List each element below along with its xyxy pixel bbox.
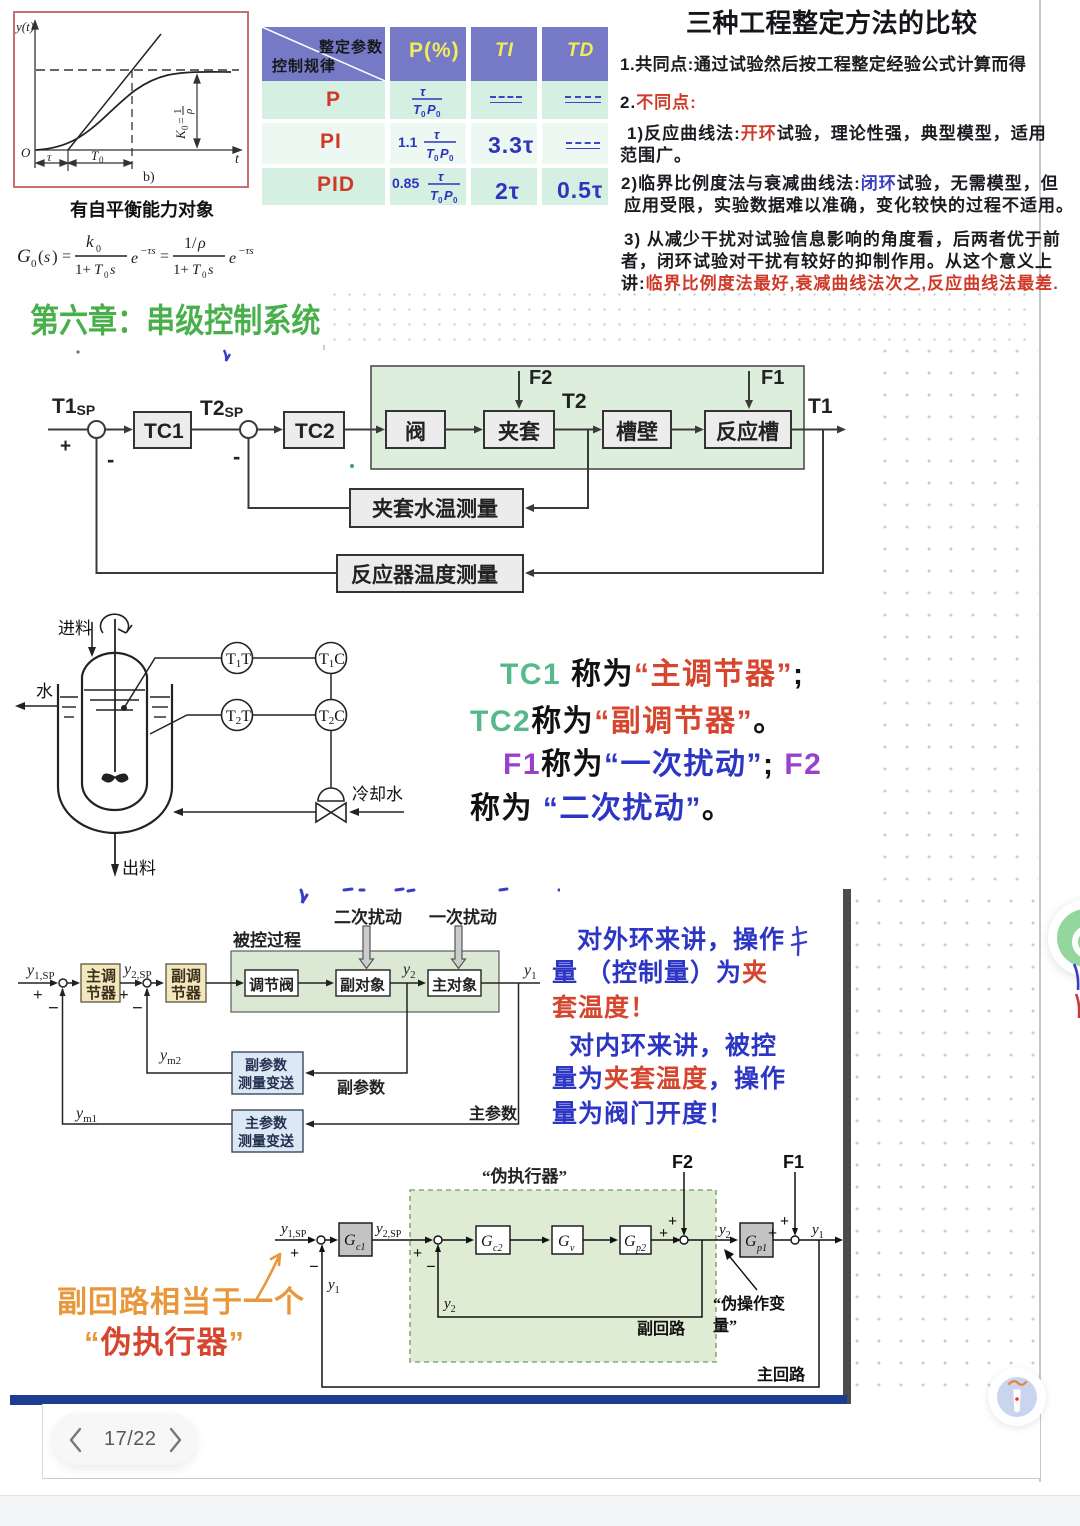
outlet arrow bbox=[114, 833, 116, 866]
svg-text:−: − bbox=[309, 1257, 319, 1276]
x axis bbox=[35, 147, 241, 153]
svg-text:1+: 1+ bbox=[75, 262, 91, 278]
svg-text:s: s bbox=[208, 263, 214, 278]
svg-text:阀: 阀 bbox=[405, 421, 426, 444]
wire wall to reactor bbox=[671, 429, 696, 431]
wire TC1 to junction 2 bbox=[191, 429, 240, 431]
wire feedback jacket temperature bbox=[527, 430, 588, 509]
svg-text:0: 0 bbox=[453, 196, 458, 205]
wire Gc2 to Gv bbox=[510, 1239, 543, 1241]
stirrer rotation symbol bbox=[101, 614, 133, 633]
liquid level marks bbox=[60, 690, 170, 717]
svg-text:y2,SP: y2,SP bbox=[374, 1221, 402, 1240]
svg-text:P: P bbox=[440, 146, 449, 161]
block reactor bbox=[705, 411, 791, 448]
instrument T2C bbox=[316, 700, 347, 731]
svg-text:0: 0 bbox=[202, 270, 207, 280]
wire valve to jacket bbox=[445, 429, 475, 431]
svg-text:T1SP: T1SP bbox=[52, 395, 95, 418]
inner vessel bbox=[82, 653, 147, 810]
svg-text:e: e bbox=[131, 250, 138, 267]
svg-text:O: O bbox=[21, 145, 31, 160]
svg-text:F1: F1 bbox=[783, 1152, 804, 1172]
svg-text:“伪执行器”: “伪执行器” bbox=[482, 1166, 567, 1186]
instrument T2T bbox=[222, 700, 253, 731]
svg-text:k: k bbox=[86, 232, 94, 251]
svg-text:P: P bbox=[444, 188, 453, 203]
svg-text:冷却水: 冷却水 bbox=[352, 785, 403, 804]
svg-text:0: 0 bbox=[31, 258, 37, 270]
svg-text:一次扰动: 一次扰动 bbox=[429, 907, 497, 927]
cut-off ink at slide edge bbox=[1072, 962, 1080, 1020]
svg-text:−τs: −τs bbox=[238, 245, 254, 257]
svg-text:P: P bbox=[427, 102, 436, 117]
stray blue ink dashes bbox=[301, 889, 686, 903]
wire secondary to primary object bbox=[390, 982, 419, 984]
svg-text:y1,SP: y1,SP bbox=[25, 962, 55, 982]
tau span arrow bbox=[36, 160, 68, 166]
block primary measurement bbox=[232, 1110, 303, 1152]
control valve body bbox=[316, 803, 346, 822]
svg-text:G: G bbox=[558, 1233, 570, 1250]
svg-text:副参数: 副参数 bbox=[337, 1078, 386, 1097]
output wire bbox=[799, 1239, 836, 1241]
block secondary measurement bbox=[232, 1052, 303, 1094]
svg-text:y2: y2 bbox=[717, 1222, 731, 1241]
caption: self-balancing object bbox=[70, 196, 214, 222]
svg-text:F2: F2 bbox=[529, 367, 552, 389]
svg-text:夹套: 夹套 bbox=[498, 420, 540, 444]
instrument T1C bbox=[316, 643, 347, 674]
block Gc2 bbox=[476, 1226, 510, 1254]
sum junction 1 bbox=[317, 1236, 325, 1244]
svg-text:主参数: 主参数 bbox=[469, 1104, 518, 1123]
svg-text:T: T bbox=[91, 148, 99, 163]
sum junction 1 bbox=[59, 979, 67, 987]
svg-text:0: 0 bbox=[434, 154, 439, 163]
wire TC2 to valve bbox=[344, 429, 377, 431]
svg-text:G: G bbox=[481, 1233, 493, 1250]
block TC2 bbox=[284, 412, 344, 448]
svg-text:y2,SP: y2,SP bbox=[122, 961, 152, 981]
svg-text:0: 0 bbox=[96, 244, 101, 255]
svg-text:+: + bbox=[119, 985, 129, 1004]
svg-text:y1,SP: y1,SP bbox=[279, 1221, 307, 1240]
block Gp2 bbox=[620, 1226, 651, 1254]
svg-text:ρ: ρ bbox=[183, 109, 195, 115]
block tank wall bbox=[603, 411, 671, 448]
tick below tangent foot bbox=[67, 150, 69, 171]
svg-text:τ: τ bbox=[47, 150, 52, 164]
svg-text:b): b) bbox=[143, 170, 155, 185]
output wire bbox=[481, 982, 540, 984]
svg-text:夹套水温测量: 夹套水温测量 bbox=[372, 497, 498, 521]
wire dot to T1T bbox=[124, 658, 221, 708]
secondary disturbance block arrow bbox=[360, 926, 374, 969]
svg-text:F1: F1 bbox=[761, 367, 784, 389]
control valve actuator bbox=[318, 788, 344, 801]
svg-text:0: 0 bbox=[180, 125, 190, 130]
svg-text:-: - bbox=[107, 447, 114, 472]
block Gc1 bbox=[339, 1223, 372, 1256]
dotted canvas band beside green chapter title bbox=[327, 287, 1038, 345]
svg-text:TC1: TC1 bbox=[144, 420, 184, 443]
sum junction 2 bbox=[434, 1236, 442, 1244]
green circular button cut at right edge bbox=[1048, 900, 1080, 976]
svg-text:量”: 量” bbox=[713, 1317, 737, 1335]
svg-text:进料: 进料 bbox=[58, 619, 92, 638]
svg-text:出料: 出料 bbox=[122, 859, 156, 878]
svg-text:T1: T1 bbox=[808, 395, 833, 418]
svg-text:c1: c1 bbox=[356, 1242, 365, 1253]
stray blue ink glyph bbox=[788, 924, 810, 962]
svg-text:ρ: ρ bbox=[197, 235, 206, 252]
figure red frame bbox=[14, 12, 248, 187]
outer feedback wire bbox=[322, 1240, 819, 1387]
svg-text:副调: 副调 bbox=[171, 968, 201, 985]
blue pen tick bbox=[224, 350, 230, 361]
row labels bbox=[326, 88, 341, 112]
svg-text:1+: 1+ bbox=[173, 262, 189, 278]
thin vertical canvas edge line bbox=[1039, 0, 1041, 1482]
svg-text:+: + bbox=[33, 985, 43, 1004]
wire T1T to T1C bbox=[253, 657, 316, 659]
block secondary object bbox=[336, 970, 390, 996]
svg-text:−: − bbox=[132, 998, 143, 1019]
svg-text:G: G bbox=[745, 1233, 757, 1250]
svg-text:=: = bbox=[174, 117, 188, 124]
svg-text:0: 0 bbox=[449, 154, 454, 163]
sum junction 2 bbox=[143, 979, 151, 987]
svg-text:−τs: −τs bbox=[140, 245, 156, 257]
wire to junction 2 bbox=[120, 982, 136, 984]
svg-text:T2SP: T2SP bbox=[200, 397, 243, 420]
svg-text:0: 0 bbox=[436, 110, 441, 119]
wire to TC1 bbox=[105, 429, 125, 431]
wire to Gc1 bbox=[325, 1239, 331, 1241]
dotted canvas right column upper bbox=[874, 340, 1038, 886]
svg-text:反应槽: 反应槽 bbox=[716, 420, 779, 444]
row PID bbox=[262, 168, 385, 205]
svg-text:+: + bbox=[413, 1245, 422, 1262]
green controlled-process region bbox=[231, 951, 499, 1012]
svg-text:主回路: 主回路 bbox=[757, 1365, 806, 1384]
svg-text:e: e bbox=[229, 250, 236, 267]
wire to secondary controller bbox=[152, 982, 158, 984]
dark slide right edge bar bbox=[843, 889, 851, 1404]
outer jacket shell bbox=[58, 684, 172, 833]
svg-text:水: 水 bbox=[36, 682, 53, 701]
svg-text:F2: F2 bbox=[672, 1152, 693, 1172]
svg-text:TC2: TC2 bbox=[295, 420, 335, 443]
row P bbox=[262, 81, 385, 119]
svg-text:y1: y1 bbox=[810, 1222, 824, 1241]
block jacket water temp measurement bbox=[350, 489, 523, 527]
wire measurement to junction 1 bbox=[97, 438, 338, 573]
wire T1C to T2C bbox=[330, 674, 332, 700]
svg-text:p1: p1 bbox=[756, 1243, 767, 1254]
bottom UI panel frame bbox=[42, 1404, 1040, 1479]
junction F2 bbox=[680, 1236, 688, 1244]
block jacket bbox=[484, 411, 554, 448]
F1 drop wire bbox=[794, 1172, 796, 1229]
inner feedback wire bbox=[438, 1240, 702, 1317]
svg-text:+: + bbox=[659, 1225, 668, 1242]
response curve bbox=[36, 72, 231, 150]
water out arrow bbox=[24, 705, 58, 707]
block primary object bbox=[428, 970, 481, 996]
svg-text:y1: y1 bbox=[522, 962, 537, 982]
wire T2C to valve bbox=[330, 731, 332, 795]
svg-text:副对象: 副对象 bbox=[340, 976, 385, 994]
svg-text:主对象: 主对象 bbox=[432, 976, 477, 994]
svg-text:+: + bbox=[768, 1225, 777, 1242]
svg-text:=: = bbox=[62, 248, 71, 265]
wire T2T to T2C bbox=[253, 714, 316, 716]
svg-text:副参数: 副参数 bbox=[245, 1057, 288, 1074]
svg-text:槽壁: 槽壁 bbox=[616, 420, 658, 444]
svg-text:+: + bbox=[780, 1213, 789, 1230]
wire to primary controller bbox=[68, 982, 74, 984]
sensor tap dot bbox=[121, 705, 127, 711]
dashes cells bbox=[490, 96, 522, 103]
transfer function formula bbox=[12, 225, 262, 285]
K0 vertical arrow bbox=[194, 75, 200, 147]
svg-text:1/: 1/ bbox=[184, 235, 197, 252]
svg-text:节器: 节器 bbox=[86, 984, 117, 1002]
navy bottom bar of slide bbox=[10, 1395, 847, 1405]
svg-text:-: - bbox=[233, 444, 240, 469]
svg-text:+: + bbox=[668, 1213, 677, 1230]
svg-text:−: − bbox=[426, 1257, 436, 1276]
svg-text:0: 0 bbox=[421, 110, 426, 119]
block Gv bbox=[552, 1226, 583, 1254]
svg-text:+: + bbox=[60, 436, 71, 457]
svg-text:G: G bbox=[344, 1232, 356, 1249]
stirrer blades bbox=[102, 774, 128, 782]
dashed pseudo-actuator region bbox=[410, 1190, 716, 1362]
feed arrow bbox=[91, 622, 93, 648]
wire inner feedback down bbox=[308, 983, 407, 1073]
F2 drop wire bbox=[683, 1172, 685, 1229]
input wire bbox=[18, 982, 51, 984]
svg-text:τ: τ bbox=[434, 127, 440, 142]
svg-text:τ: τ bbox=[420, 84, 426, 99]
junction F1 bbox=[791, 1236, 799, 1244]
svg-text:0: 0 bbox=[99, 155, 104, 165]
svg-text:主调: 主调 bbox=[86, 967, 116, 985]
svg-text:ym1: ym1 bbox=[74, 1105, 97, 1125]
svg-text:c2: c2 bbox=[493, 1243, 502, 1254]
green process region bbox=[371, 366, 804, 469]
svg-text:T: T bbox=[94, 262, 104, 278]
dashed vertical at T0 end bbox=[131, 70, 133, 169]
wire measurement to junction 2 bbox=[249, 438, 351, 508]
primary disturbance block arrow bbox=[452, 926, 466, 969]
svg-text:G: G bbox=[17, 246, 31, 267]
wire valve to secondary object bbox=[298, 982, 327, 984]
dashed asymptote bbox=[36, 69, 239, 71]
svg-text:s: s bbox=[44, 249, 50, 266]
block control valve bbox=[245, 970, 298, 996]
block reactor temp measurement bbox=[337, 555, 523, 592]
stirrer shaft bbox=[114, 619, 116, 772]
svg-text:二次扰动: 二次扰动 bbox=[334, 907, 402, 927]
wire measurement to junction 1 bbox=[63, 989, 233, 1124]
header row purple cells bbox=[262, 27, 385, 81]
svg-text:=: = bbox=[160, 248, 169, 265]
output wire with T1 label bbox=[791, 429, 838, 431]
block TC1 bbox=[134, 412, 191, 448]
block primary controller bbox=[81, 964, 120, 1002]
svg-text:调节阀: 调节阀 bbox=[249, 976, 294, 994]
svg-text:0: 0 bbox=[104, 270, 109, 280]
svg-text:被控过程: 被控过程 bbox=[233, 930, 301, 950]
wire Gc1 to junction 2 bbox=[372, 1239, 426, 1241]
block secondary controller bbox=[166, 964, 206, 1002]
orange arrow bbox=[248, 1242, 298, 1306]
wire to TC2 bbox=[257, 429, 275, 431]
instrument T1T bbox=[222, 643, 253, 674]
svg-text:−: − bbox=[48, 998, 59, 1019]
sum junction 2 bbox=[240, 421, 257, 438]
svg-text:T: T bbox=[192, 262, 202, 278]
wire Gp2 to junction F2 bbox=[651, 1239, 673, 1241]
wire Gv to Gp2 bbox=[583, 1239, 611, 1241]
wire outer feedback down bbox=[308, 983, 519, 1124]
wire Gp1 to junction F1 bbox=[773, 1239, 791, 1241]
pen tool floating button bbox=[988, 1368, 1046, 1426]
note arrow bbox=[730, 1257, 757, 1290]
sum junction 1 bbox=[88, 421, 105, 438]
block valve bbox=[386, 411, 445, 448]
svg-text:v: v bbox=[570, 1243, 575, 1254]
cooling water arrow bbox=[358, 811, 404, 813]
T0 span arrow bbox=[68, 160, 132, 166]
pager pill < 17/22 > bbox=[52, 1413, 197, 1465]
svg-text:): ) bbox=[52, 247, 58, 266]
wire input bbox=[48, 429, 88, 431]
cell formulas bbox=[390, 81, 466, 119]
wire measurement to junction 2 bbox=[147, 989, 232, 1073]
wire to control valve bbox=[206, 982, 237, 984]
svg-text:1.1: 1.1 bbox=[398, 134, 418, 150]
input wire bbox=[275, 1239, 309, 1241]
svg-text:副回路: 副回路 bbox=[637, 1319, 686, 1338]
svg-text:G: G bbox=[624, 1233, 636, 1250]
wire jacket probe to T2T bbox=[150, 715, 221, 734]
svg-text:测量变送: 测量变送 bbox=[238, 1075, 295, 1092]
svg-text:τ: τ bbox=[438, 169, 444, 184]
svg-text:节器: 节器 bbox=[171, 984, 202, 1002]
label K0=1/rho rotated bbox=[172, 106, 195, 140]
svg-text:反应器温度测量: 反应器温度测量 bbox=[351, 563, 498, 587]
wire junction to Gp1 bbox=[688, 1239, 731, 1241]
svg-text:主参数: 主参数 bbox=[245, 1115, 288, 1132]
header diagonal line bbox=[262, 27, 385, 81]
svg-text:0: 0 bbox=[438, 196, 443, 205]
svg-text:y1: y1 bbox=[326, 1277, 340, 1296]
svg-text:p2: p2 bbox=[635, 1243, 646, 1254]
dotted canvas right column lower bbox=[846, 886, 1038, 1398]
svg-text:s: s bbox=[110, 263, 116, 278]
wire valve to jacket bbox=[182, 811, 316, 813]
row PI bbox=[262, 123, 385, 164]
wire to Gc2 bbox=[442, 1239, 467, 1241]
svg-text:ym2: ym2 bbox=[158, 1047, 181, 1067]
svg-text:0.85: 0.85 bbox=[392, 175, 419, 191]
tangent line bbox=[68, 34, 161, 150]
svg-text:“伪操作变: “伪操作变 bbox=[713, 1294, 785, 1313]
svg-text:T2: T2 bbox=[562, 390, 587, 413]
block Gp1 bbox=[740, 1223, 773, 1257]
svg-text:y(t): y(t) bbox=[14, 19, 34, 34]
y axis bbox=[32, 21, 38, 168]
wire feedback reactor temperature bbox=[527, 430, 823, 574]
wire jacket to wall with T2 node bbox=[554, 429, 594, 431]
